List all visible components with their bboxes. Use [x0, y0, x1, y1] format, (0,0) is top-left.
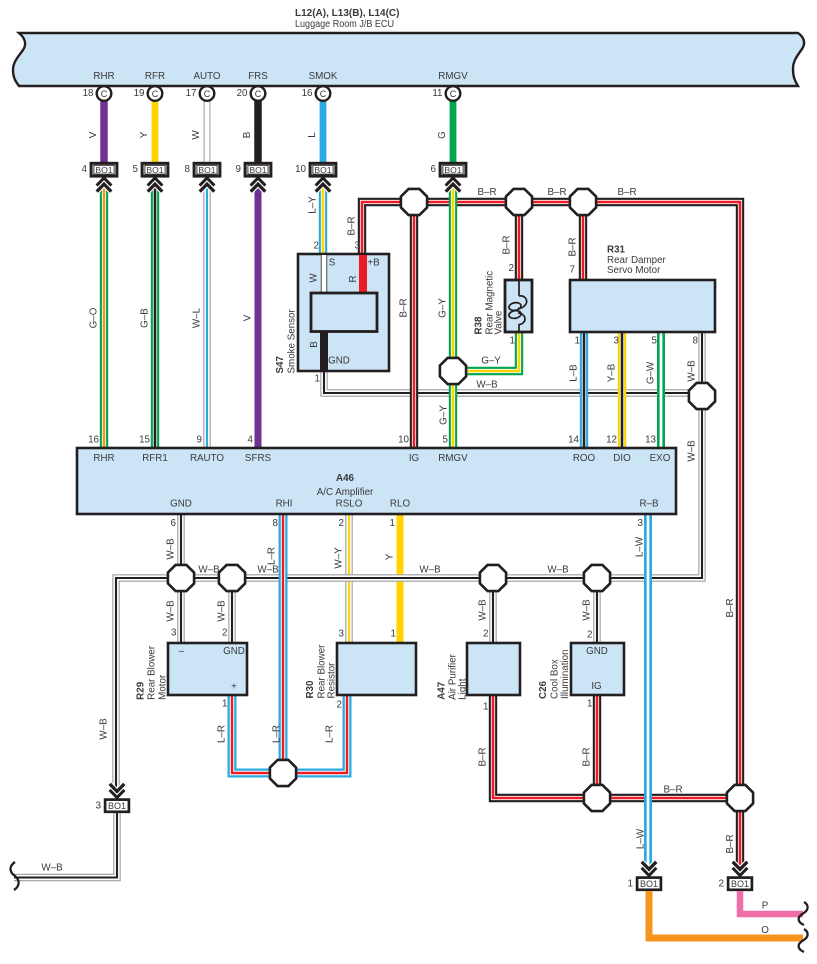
svg-text:RHI: RHI	[276, 499, 293, 510]
svg-text:S: S	[329, 258, 336, 269]
svg-text:2: 2	[509, 263, 514, 274]
wire L-R from A46 RHI down to node	[267, 511, 284, 773]
pin label AUTO on J/B band	[193, 71, 220, 82]
junction J8 at (493,578)	[480, 565, 506, 591]
svg-text:L: L	[307, 132, 318, 138]
label L12/L13/L14 title	[295, 8, 399, 30]
svg-text:5: 5	[652, 336, 658, 347]
svg-text:ROO: ROO	[573, 453, 596, 464]
svg-text:W–B: W–B	[419, 565, 441, 576]
junction J6 at (181,578)	[168, 565, 194, 591]
wire W-Y (RSLO) to R30 pin 3	[334, 511, 350, 643]
svg-text:6: 6	[171, 518, 177, 529]
svg-text:RMGV: RMGV	[438, 71, 468, 82]
svg-text:EXO: EXO	[650, 453, 671, 464]
svg-text:–: –	[179, 646, 185, 657]
svg-text:9: 9	[236, 164, 241, 175]
svg-text:4: 4	[248, 434, 254, 445]
junction J12 at (740,798)	[727, 785, 753, 811]
svg-text:10: 10	[295, 164, 306, 175]
wire B-R from node down to BO1 2	[736, 798, 744, 866]
svg-text:B–R: B–R	[502, 235, 513, 254]
wire O (orange) from BO1 1 to right edge	[649, 891, 803, 938]
wire Y-B (DIO)	[607, 330, 623, 450]
svg-text:L–R: L–R	[272, 725, 283, 743]
wire V (FRS)	[243, 186, 259, 450]
svg-text:R31: R31	[607, 244, 626, 255]
svg-text:BO1: BO1	[731, 879, 749, 889]
svg-text:W–B: W–B	[687, 440, 698, 462]
wire Y (RLO) to R30 pin 1	[385, 511, 401, 643]
svg-text:16: 16	[302, 88, 313, 99]
svg-text:V: V	[88, 131, 99, 138]
svg-text:A/C Amplifier: A/C Amplifier	[317, 487, 374, 498]
svg-text:B–R: B–R	[617, 187, 636, 198]
svg-text:RFR1: RFR1	[142, 453, 168, 464]
torn end of W-B wire at left edge	[11, 862, 19, 890]
svg-text:3: 3	[339, 629, 345, 640]
svg-text:RSLO: RSLO	[336, 499, 363, 510]
smoke sensor S47	[275, 241, 389, 385]
svg-text:W–B: W–B	[476, 380, 498, 391]
connector BO1 terminal 10	[295, 163, 336, 191]
svg-text:W–B: W–B	[166, 538, 177, 560]
wire G-Y (RMGV)	[438, 186, 454, 450]
svg-text:B–R: B–R	[399, 298, 410, 317]
svg-text:W–B: W–B	[257, 565, 279, 576]
svg-text:18: 18	[83, 88, 94, 99]
connector BO1 terminal 2	[718, 862, 751, 890]
wire B from pin 20	[242, 100, 258, 163]
junction J4 at (453,371)	[440, 358, 466, 384]
svg-text:1: 1	[391, 629, 396, 640]
svg-text:W–B: W–B	[687, 360, 698, 382]
svg-text:2: 2	[587, 630, 592, 641]
wire G-O (RHR)	[89, 186, 105, 450]
junction J9 at (597,578)	[584, 565, 610, 591]
svg-text:R: R	[348, 275, 359, 282]
svg-text:S47: S47	[275, 356, 286, 374]
svg-text:Illumination: Illumination	[560, 649, 571, 699]
svg-text:GND: GND	[170, 499, 192, 510]
svg-text:GND: GND	[586, 646, 608, 657]
svg-text:IG: IG	[591, 681, 601, 692]
svg-text:Servo Motor: Servo Motor	[607, 265, 661, 276]
svg-text:4: 4	[82, 164, 88, 175]
svg-text:C: C	[255, 89, 262, 99]
svg-text:B–R: B–R	[478, 747, 489, 766]
svg-text:BO1: BO1	[146, 165, 163, 175]
svg-text:B–R: B–R	[568, 237, 579, 256]
pin label RMGV on J/B band	[438, 71, 468, 82]
wire W-L (AUTO)	[192, 186, 208, 450]
svg-text:Valve: Valve	[494, 310, 505, 334]
svg-text:12: 12	[606, 434, 617, 445]
svg-text:O: O	[761, 925, 769, 936]
svg-text:1: 1	[315, 374, 320, 385]
wire B-R branch to R31 pin 7	[568, 202, 584, 281]
svg-text:1: 1	[222, 699, 227, 710]
wire Y from pin 19	[139, 100, 155, 163]
svg-text:W–Y: W–Y	[334, 547, 345, 569]
wire W-B below BO1 3 to left edge	[14, 812, 117, 878]
svg-text:B–R: B–R	[582, 747, 593, 766]
junction J10 at (283,773)	[270, 760, 296, 786]
svg-text:1: 1	[627, 878, 633, 889]
svg-text:L–W: L–W	[636, 828, 647, 849]
svg-text:5: 5	[443, 434, 449, 445]
svg-text:6: 6	[431, 164, 437, 175]
svg-text:W–B: W–B	[198, 565, 220, 576]
svg-text:R38: R38	[474, 316, 485, 335]
pin label FRS on J/B band	[248, 71, 268, 82]
pin 11 (C) of J/B	[432, 86, 460, 101]
svg-text:1: 1	[575, 336, 580, 347]
svg-text:C: C	[152, 89, 159, 99]
torn end of wire O	[799, 929, 808, 952]
svg-text:W–B: W–B	[582, 599, 593, 621]
wire W-B bus to C26 pin 2	[582, 578, 598, 643]
svg-text:BO1: BO1	[640, 879, 658, 889]
svg-text:3: 3	[614, 336, 620, 347]
rear blower resistor R30	[305, 629, 416, 699]
svg-text:8: 8	[693, 336, 699, 347]
svg-text:Smoke Sensor: Smoke Sensor	[287, 309, 298, 374]
svg-text:B–R: B–R	[347, 216, 358, 235]
svg-text:A47: A47	[437, 681, 448, 700]
wire W-B bus to R29 pin 3	[166, 578, 182, 643]
wire B-R (IG)	[399, 202, 415, 450]
svg-text:BO1: BO1	[108, 801, 126, 811]
svg-text:9: 9	[197, 434, 202, 445]
svg-text:7: 7	[570, 265, 575, 276]
svg-text:SFRS: SFRS	[245, 453, 272, 464]
svg-text:W–B: W–B	[547, 565, 569, 576]
svg-text:L–R: L–R	[267, 547, 278, 565]
connector BO1 terminal 4	[82, 163, 117, 191]
svg-text:G–O: G–O	[89, 307, 100, 328]
svg-text:19: 19	[134, 88, 145, 99]
svg-text:B–R: B–R	[725, 598, 736, 617]
svg-text:Resistor: Resistor	[327, 662, 338, 699]
wire W-B (GND) from A46 to bus	[166, 511, 182, 578]
svg-text:L–B: L–B	[569, 364, 580, 382]
wire B-R branch to R38 pin 2	[502, 202, 520, 281]
svg-text:BO1: BO1	[249, 165, 266, 175]
rear blower motor R29	[136, 643, 247, 700]
svg-text:2: 2	[222, 628, 227, 639]
rear damper servo motor R31	[570, 244, 715, 346]
svg-text:BO1: BO1	[444, 165, 461, 175]
svg-text:GND: GND	[328, 356, 350, 367]
svg-text:Cool Box: Cool Box	[550, 659, 561, 699]
svg-text:14: 14	[568, 434, 579, 445]
wire W-B bus to R29 pin 2	[217, 578, 233, 643]
wire B-R from C26 pin 1 to node	[582, 695, 598, 798]
svg-text:W–L: W–L	[192, 307, 203, 328]
svg-text:B: B	[242, 131, 253, 138]
wire W-B from S47 pin 1 to junction (702,396)	[324, 370, 700, 393]
junction J2 at (519,202)	[506, 189, 532, 215]
svg-text:B–R: B–R	[725, 834, 736, 853]
pin 16 (C) of J/B	[302, 86, 331, 101]
wire W-B from R31 pin 8	[687, 330, 703, 396]
svg-text:C: C	[101, 89, 108, 99]
svg-text:AUTO: AUTO	[193, 71, 220, 82]
svg-text:1: 1	[587, 699, 592, 710]
svg-text:BO1: BO1	[95, 165, 112, 175]
svg-text:FRS: FRS	[248, 71, 268, 82]
junction J5 at (702,396)	[689, 383, 715, 409]
svg-text:IG: IG	[409, 453, 419, 464]
A/C amplifier A46	[77, 434, 676, 529]
svg-text:3: 3	[171, 628, 177, 639]
svg-text:L12(A), L13(B), L14(C): L12(A), L13(B), L14(C)	[295, 8, 399, 19]
cool box illumination C26	[538, 643, 624, 699]
pin 17 (C) of J/B	[186, 86, 215, 101]
svg-text:8: 8	[273, 518, 279, 529]
svg-text:Luggage Room J/B ECU: Luggage Room J/B ECU	[295, 19, 394, 30]
svg-text:RHR: RHR	[93, 453, 114, 464]
svg-text:B–R: B–R	[477, 187, 496, 198]
wire P (pink) from BO1 2 to right edge	[740, 891, 803, 914]
svg-text:W–B: W–B	[166, 600, 177, 622]
svg-text:W–B: W–B	[41, 863, 63, 874]
svg-text:RAUTO: RAUTO	[190, 453, 224, 464]
svg-text:Y: Y	[139, 131, 150, 138]
junction J7 at (232,578)	[219, 565, 245, 591]
pin label RHR on J/B band	[93, 71, 114, 82]
svg-text:2: 2	[483, 629, 488, 640]
connector BO1 terminal 3	[95, 784, 128, 812]
connector BO1 terminal 9	[236, 163, 271, 191]
svg-text:W: W	[309, 273, 320, 283]
svg-text:RHR: RHR	[93, 71, 114, 82]
svg-text:Motor: Motor	[158, 674, 169, 700]
svg-text:B: B	[309, 341, 320, 348]
svg-text:10: 10	[398, 434, 409, 445]
pin label SMOK on J/B band	[309, 71, 338, 82]
svg-text:2: 2	[314, 241, 319, 252]
svg-text:RLO: RLO	[390, 499, 411, 510]
svg-text:11: 11	[432, 88, 442, 99]
svg-text:B–R: B–R	[547, 187, 566, 198]
wire L-B (ROO)	[569, 330, 585, 450]
svg-text:L–R: L–R	[217, 725, 228, 743]
connector BO1 terminal 8	[185, 163, 220, 191]
svg-text:SMOK: SMOK	[309, 71, 338, 82]
svg-text:B–R: B–R	[663, 785, 682, 796]
svg-text:+: +	[231, 682, 237, 693]
svg-text:A46: A46	[336, 473, 355, 484]
svg-text:3: 3	[355, 241, 361, 252]
svg-text:P: P	[762, 901, 769, 912]
svg-text:R30: R30	[305, 680, 316, 699]
pin label RFR on J/B band	[145, 71, 165, 82]
svg-text:G–B: G–B	[140, 308, 151, 328]
wire W-B bus to A47 pin 2	[478, 578, 494, 643]
wire B-R node to node toward BO1 2	[597, 785, 740, 799]
wire L-Y to S47 pin 2	[308, 186, 324, 255]
air purifier light A47	[437, 643, 521, 700]
wire L-R from R29 pin 1 and R30 pin 2 through node	[217, 695, 348, 773]
svg-text:2: 2	[337, 700, 342, 711]
svg-text:W: W	[191, 130, 202, 140]
svg-text:G–W: G–W	[646, 361, 657, 384]
junction J11 at (597,798)	[584, 785, 610, 811]
svg-text:Light: Light	[458, 678, 469, 700]
svg-text:Rear Blower: Rear Blower	[147, 645, 158, 700]
connector BO1 terminal 1	[627, 862, 660, 890]
torn end of wire P	[799, 902, 808, 925]
svg-text:W–B: W–B	[99, 718, 110, 740]
svg-text:V: V	[243, 314, 254, 321]
svg-text:BO1: BO1	[314, 165, 331, 175]
svg-text:L–Y: L–Y	[308, 196, 319, 214]
svg-text:13: 13	[645, 434, 656, 445]
svg-text:BO1: BO1	[198, 165, 215, 175]
svg-text:W–B: W–B	[478, 599, 489, 621]
svg-text:C: C	[320, 89, 327, 99]
svg-text:+B: +B	[367, 258, 380, 269]
junction J3 at (583,202)	[570, 189, 596, 215]
wire B-R from A47 pin 1 to node	[478, 695, 598, 798]
pin 20 (C) of J/B	[237, 86, 266, 101]
svg-text:16: 16	[88, 434, 99, 445]
wire W-B ground bus from node (702,396) down, across, to BO1 3	[99, 398, 703, 788]
svg-text:R–B: R–B	[639, 499, 659, 510]
svg-text:2: 2	[339, 518, 344, 529]
wire G from pin 11	[437, 100, 453, 163]
svg-text:1: 1	[510, 336, 515, 347]
svg-text:17: 17	[186, 88, 197, 99]
wire B-R bus from S47 +B across top and down right side	[347, 187, 741, 854]
svg-text:20: 20	[237, 88, 248, 99]
svg-text:RMGV: RMGV	[438, 453, 468, 464]
wire V from pin 18	[88, 100, 104, 163]
svg-text:R29: R29	[136, 681, 147, 700]
pin 19 (C) of J/B	[134, 86, 163, 101]
junction J1 at (414,202)	[401, 189, 427, 215]
wire W from pin 17	[191, 100, 207, 163]
connector BO1 terminal 6	[431, 163, 466, 191]
svg-text:C: C	[204, 89, 211, 99]
wire G-W (EXO)	[646, 330, 662, 450]
wire L-W from A46 pin 3 down to BO1 1	[635, 511, 649, 866]
svg-text:3: 3	[638, 518, 644, 529]
svg-text:1: 1	[390, 518, 395, 529]
wire G-B (RFR)	[140, 186, 156, 450]
connector BO1 terminal 5	[133, 163, 168, 191]
svg-text:L–W: L–W	[635, 536, 646, 557]
svg-text:2: 2	[718, 878, 724, 889]
svg-text:RFR: RFR	[145, 71, 165, 82]
svg-text:W–B: W–B	[217, 600, 228, 622]
svg-text:G: G	[437, 131, 448, 139]
svg-text:G–Y: G–Y	[439, 405, 450, 425]
svg-text:Y–B: Y–B	[607, 363, 618, 382]
svg-text:1: 1	[483, 702, 488, 713]
svg-text:C26: C26	[538, 680, 549, 699]
svg-text:Y: Y	[385, 553, 396, 560]
svg-text:8: 8	[185, 164, 191, 175]
pin 18 (C) of J/B	[83, 86, 112, 101]
svg-text:3: 3	[95, 801, 101, 812]
svg-text:L–R: L–R	[325, 725, 336, 743]
svg-text:5: 5	[133, 164, 139, 175]
svg-text:G–Y: G–Y	[438, 298, 449, 318]
svg-text:GND: GND	[223, 646, 245, 657]
rear magnetic valve R38 (coil)	[474, 263, 532, 347]
junction block: Luggage Room J/B ECU band	[13, 33, 804, 86]
svg-text:G–Y: G–Y	[481, 356, 501, 367]
svg-text:DIO: DIO	[613, 453, 631, 464]
svg-text:15: 15	[139, 434, 150, 445]
wire G-Y branch from node to R38 pin 1	[453, 330, 519, 371]
wire L from pin 16	[307, 100, 323, 163]
svg-text:C: C	[450, 89, 457, 99]
